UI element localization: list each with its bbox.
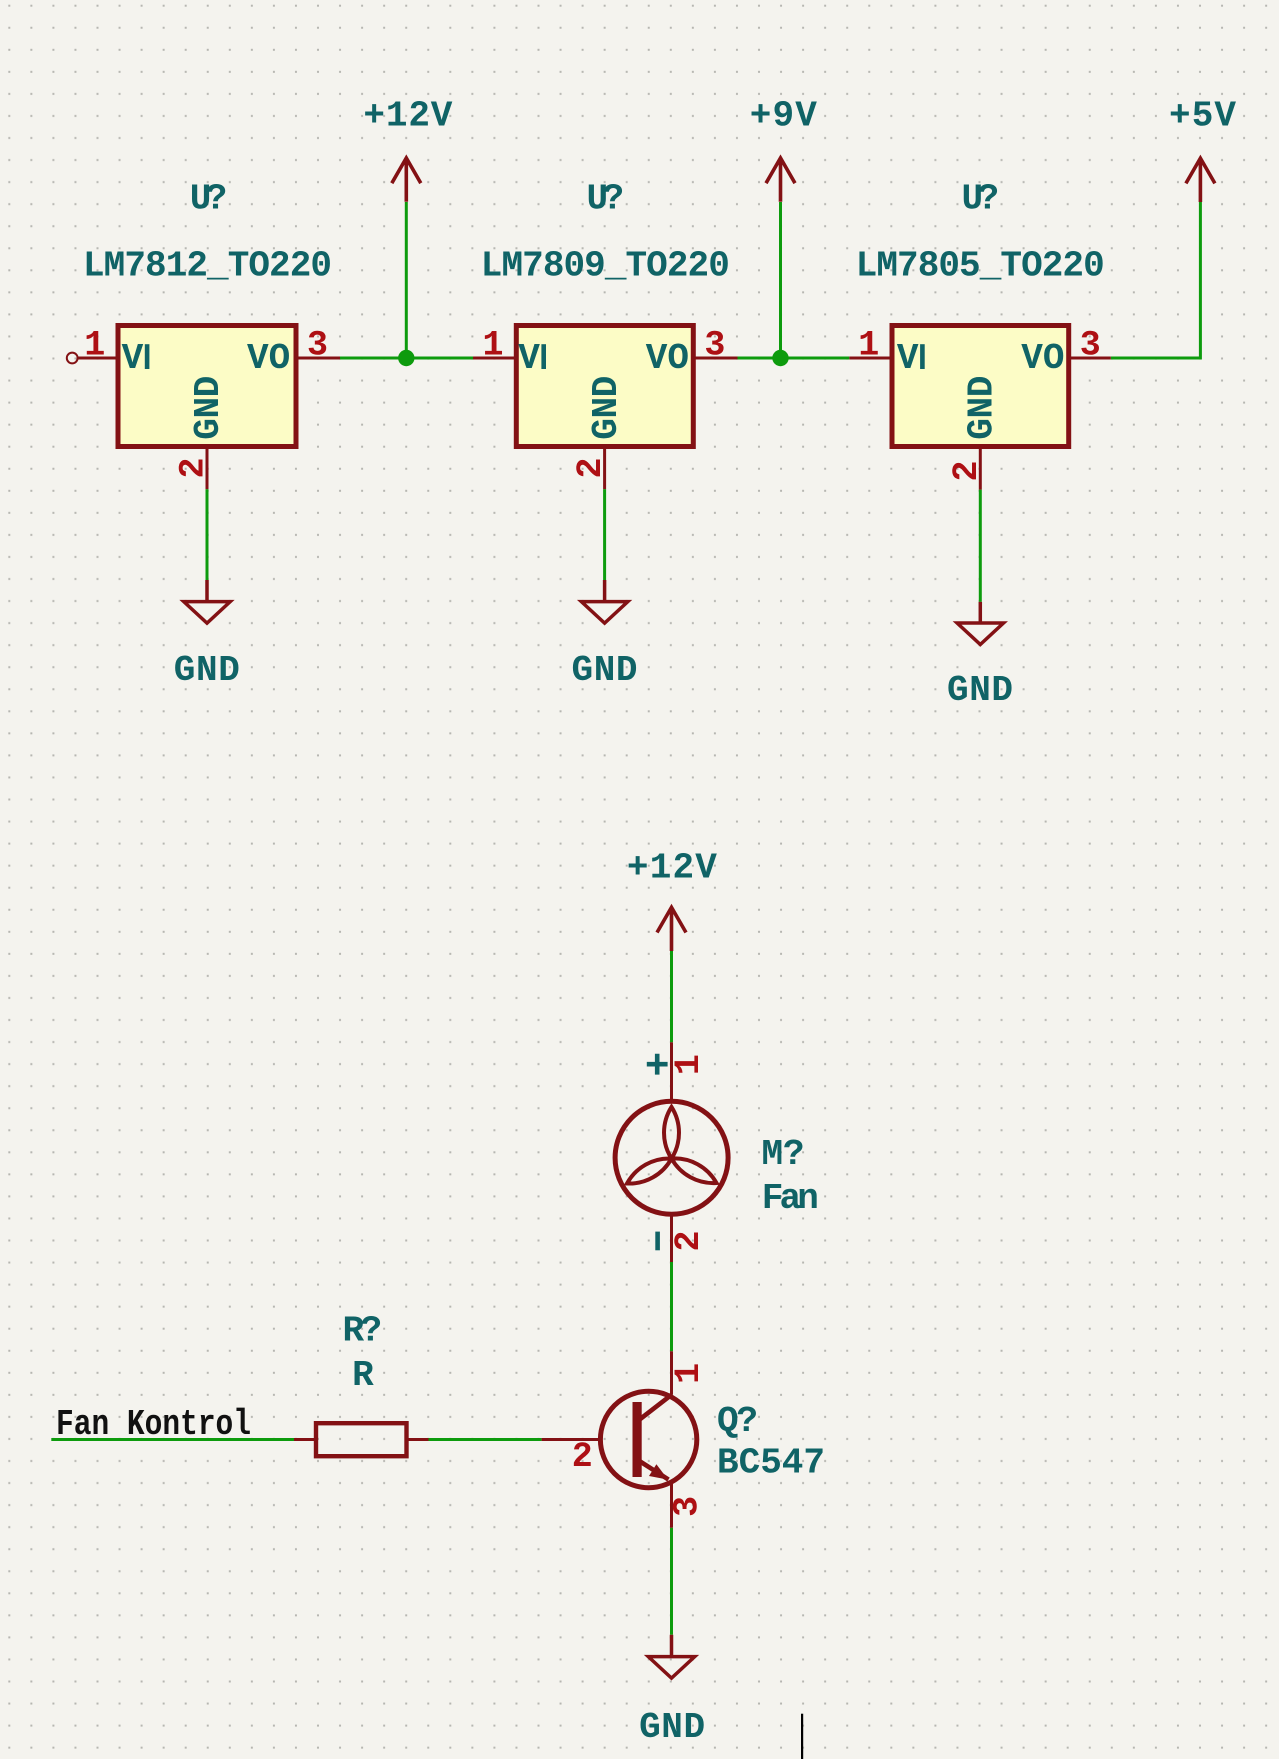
svg-text:+9V: +9V — [750, 96, 817, 137]
svg-text:Fan Kontrol: Fan Kontrol — [56, 1404, 251, 1445]
svg-text:LM7812_TO220: LM7812_TO220 — [83, 246, 332, 287]
svg-text:GND: GND — [947, 670, 1013, 711]
svg-text:VO: VO — [247, 338, 290, 379]
svg-text:+5V: +5V — [1169, 96, 1236, 137]
svg-text:+12V: +12V — [627, 847, 717, 888]
svg-text:1: 1 — [858, 326, 879, 366]
svg-text:GND: GND — [572, 650, 638, 691]
svg-text:1: 1 — [669, 1054, 709, 1075]
svg-text:V: V — [518, 338, 540, 379]
svg-text:GND: GND — [962, 376, 1003, 440]
svg-text:3: 3 — [307, 326, 328, 366]
svg-text:VO: VO — [1021, 338, 1064, 379]
svg-text:1: 1 — [482, 326, 503, 366]
svg-text:V: V — [122, 338, 144, 379]
svg-text:Fan: Fan — [762, 1178, 819, 1219]
svg-text:2: 2 — [669, 1230, 709, 1251]
svg-text:3: 3 — [704, 326, 725, 366]
svg-text:2: 2 — [174, 457, 214, 478]
svg-text:GND: GND — [188, 376, 229, 440]
svg-text:VO: VO — [646, 338, 689, 379]
svg-text:Q?: Q? — [717, 1401, 758, 1442]
svg-text:LM7809_TO220: LM7809_TO220 — [481, 246, 730, 287]
svg-text:BC547: BC547 — [717, 1443, 825, 1484]
svg-text:M?: M? — [762, 1134, 805, 1175]
svg-text:GND: GND — [586, 376, 627, 440]
svg-text:V: V — [897, 338, 919, 379]
svg-text:R?: R? — [343, 1311, 383, 1352]
svg-text:2: 2 — [947, 460, 987, 481]
svg-text:GND: GND — [174, 650, 240, 691]
svg-text:U?: U? — [587, 179, 625, 220]
svg-text:3: 3 — [668, 1496, 708, 1517]
svg-text:U?: U? — [190, 179, 228, 220]
svg-text:GND: GND — [639, 1707, 705, 1748]
svg-text:1: 1 — [669, 1363, 709, 1384]
svg-text:U?: U? — [962, 179, 1000, 220]
svg-text:R: R — [352, 1355, 374, 1396]
svg-text:3: 3 — [1080, 326, 1101, 366]
svg-text:1: 1 — [84, 326, 105, 366]
svg-text:+12V: +12V — [363, 96, 452, 137]
svg-text:LM7805_TO220: LM7805_TO220 — [856, 246, 1105, 287]
svg-text:2: 2 — [571, 457, 611, 478]
svg-text:2: 2 — [572, 1437, 593, 1477]
